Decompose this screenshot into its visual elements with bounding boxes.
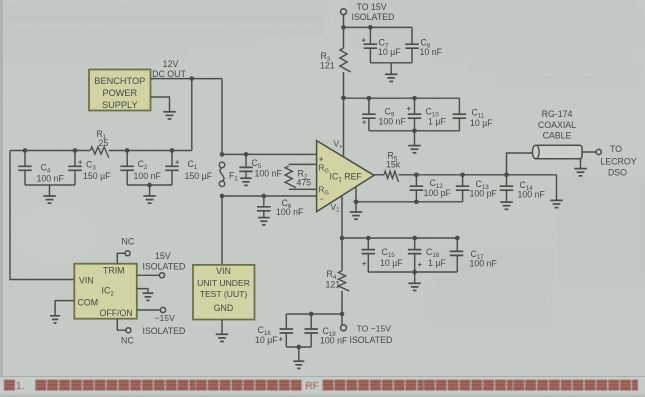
capacitor C11 [458, 98, 460, 114]
coax cable RG-174 body [536, 145, 583, 159]
wire fuse to UUT VIN [221, 196, 223, 265]
caption separator line [0, 376, 645, 378]
resistor R5 [384, 171, 398, 182]
ground at COM [50, 315, 60, 317]
ground under V- bypass [408, 282, 421, 284]
capacitor C2 [126, 151, 128, 167]
wire C4-C3 ground join [25, 184, 75, 186]
terminal NC bottom [126, 328, 131, 333]
capacitor C10 [414, 98, 416, 114]
ground under C4 C3 [43, 195, 56, 197]
junction on 12V rail [189, 76, 194, 81]
wire left sense rail to IC2 VIN [10, 151, 74, 280]
wire R4 to -15V terminal [341, 291, 343, 325]
terminal TO -15V ISOLATED [341, 325, 347, 331]
wire V+ bypass rail [344, 97, 460, 99]
resistor R1 [90, 147, 108, 158]
junction C6 tap [261, 194, 266, 199]
ground at power supply [163, 111, 176, 113]
scan background texture [4, 2, 645, 320]
capacitor C8 [411, 27, 413, 44]
wire R3 to V+ rail [343, 72, 345, 98]
ground under C5 [240, 177, 252, 179]
wire 12V DC OUT rail [151, 78, 223, 80]
wire C18-C19 ground join [286, 346, 311, 348]
wire UUT ground [221, 320, 223, 335]
voltage regulator IC2 box [74, 264, 137, 319]
wire REF pin to ground and bypass return [356, 188, 463, 202]
capacitor C9 [368, 98, 370, 114]
capacitor C18 [285, 314, 287, 329]
ground under C6 [258, 217, 270, 219]
capacitor C14 [506, 175, 508, 186]
capacitor C1 [171, 151, 173, 167]
wire C7-C8 ground join [370, 62, 412, 64]
capacitor C15 [367, 238, 369, 250]
junction C5 tap [244, 152, 249, 157]
ground at output stub [550, 199, 563, 201]
junction C7 tap [368, 25, 373, 30]
capacitor C6 [263, 196, 265, 207]
junction C13 [460, 172, 465, 177]
wire in-amp positive input branch [222, 153, 317, 155]
capacitor C19 [310, 314, 312, 329]
figure caption [4, 380, 638, 392]
terminal -15V isolated [160, 307, 165, 312]
capacitor C5 [245, 154, 247, 167]
capacitor C17 [456, 238, 458, 251]
wire coax feed [507, 153, 534, 175]
wire TRIM pin to NC [117, 253, 125, 263]
capacitor C16 [414, 238, 416, 250]
fuse F1 [220, 152, 225, 157]
wire OFF/ON pin to NC [117, 319, 125, 331]
wire IC1 output [374, 174, 384, 176]
wire coax output [582, 151, 596, 153]
wire COM pin to ground [55, 301, 74, 316]
wire input filter rail [10, 150, 90, 152]
junction V+ rail [341, 95, 346, 100]
junction C18 C19 branch [340, 312, 345, 317]
ground at REF pin [350, 211, 363, 213]
junction V- rail [340, 236, 345, 241]
junction C12 [414, 172, 419, 177]
capacitor C13 [462, 175, 464, 186]
wire supply ground stub [151, 97, 170, 112]
terminal TO LECROY DSO [596, 149, 601, 154]
terminal NC top [125, 251, 130, 256]
wire C15-C17 ground join [368, 271, 457, 273]
terminal TO 15V ISOLATED [341, 9, 347, 15]
wire V- supply from IC1 [341, 196, 343, 238]
wire C7 C8 branch [344, 26, 413, 28]
wire 12V drop to cap rail [191, 79, 193, 151]
capacitor C7 [369, 27, 371, 44]
wire IC2 ground stub [137, 289, 148, 293]
wire C18 C19 branch [286, 313, 342, 315]
resistor R3 [340, 48, 351, 72]
wire 15V isolated output pin [137, 274, 159, 276]
capacitor C3 [74, 151, 76, 167]
ground under C2 C1 [143, 195, 156, 197]
capacitor C4 [24, 151, 26, 167]
wire V- rail to R4 [341, 238, 343, 271]
wire V+ supply into IC1 [343, 98, 345, 158]
ground under UUT [216, 333, 229, 335]
terminal 15V isolated [159, 273, 164, 278]
wire C2-C1 ground join [127, 184, 172, 186]
ground under C7 C8 [385, 73, 398, 75]
gain resistor R2 with RG pin wires [289, 163, 317, 165]
ground under V+ bypass [408, 145, 421, 147]
wire C9-C11 ground join [369, 130, 460, 132]
capacitor C12 [415, 175, 417, 186]
resistor R4 [338, 271, 349, 291]
left scan edge [0, 0, 3, 397]
benchtop power supply box [89, 70, 151, 111]
wire +15V feed [343, 14, 345, 48]
ground at coax shield [574, 168, 587, 170]
wire coax shield ground [580, 159, 582, 168]
wire 12V drop to fuse [221, 79, 223, 156]
ground under C14 [500, 201, 513, 203]
wire output stub to ground [556, 175, 558, 200]
op-amp IC1 instrumentation amplifier [317, 141, 374, 212]
junction 15V branch [341, 25, 346, 30]
junction C14 and coax tap [504, 172, 509, 177]
ground under C18 C19 [293, 360, 304, 362]
wire V- bypass rail [342, 237, 457, 239]
unit under test box [193, 265, 255, 320]
wire in-amp negative input branch [222, 195, 317, 197]
wire output line to coax [399, 174, 557, 176]
wire -15V isolated output pin [137, 309, 160, 311]
ground at IC2 common [142, 292, 153, 294]
